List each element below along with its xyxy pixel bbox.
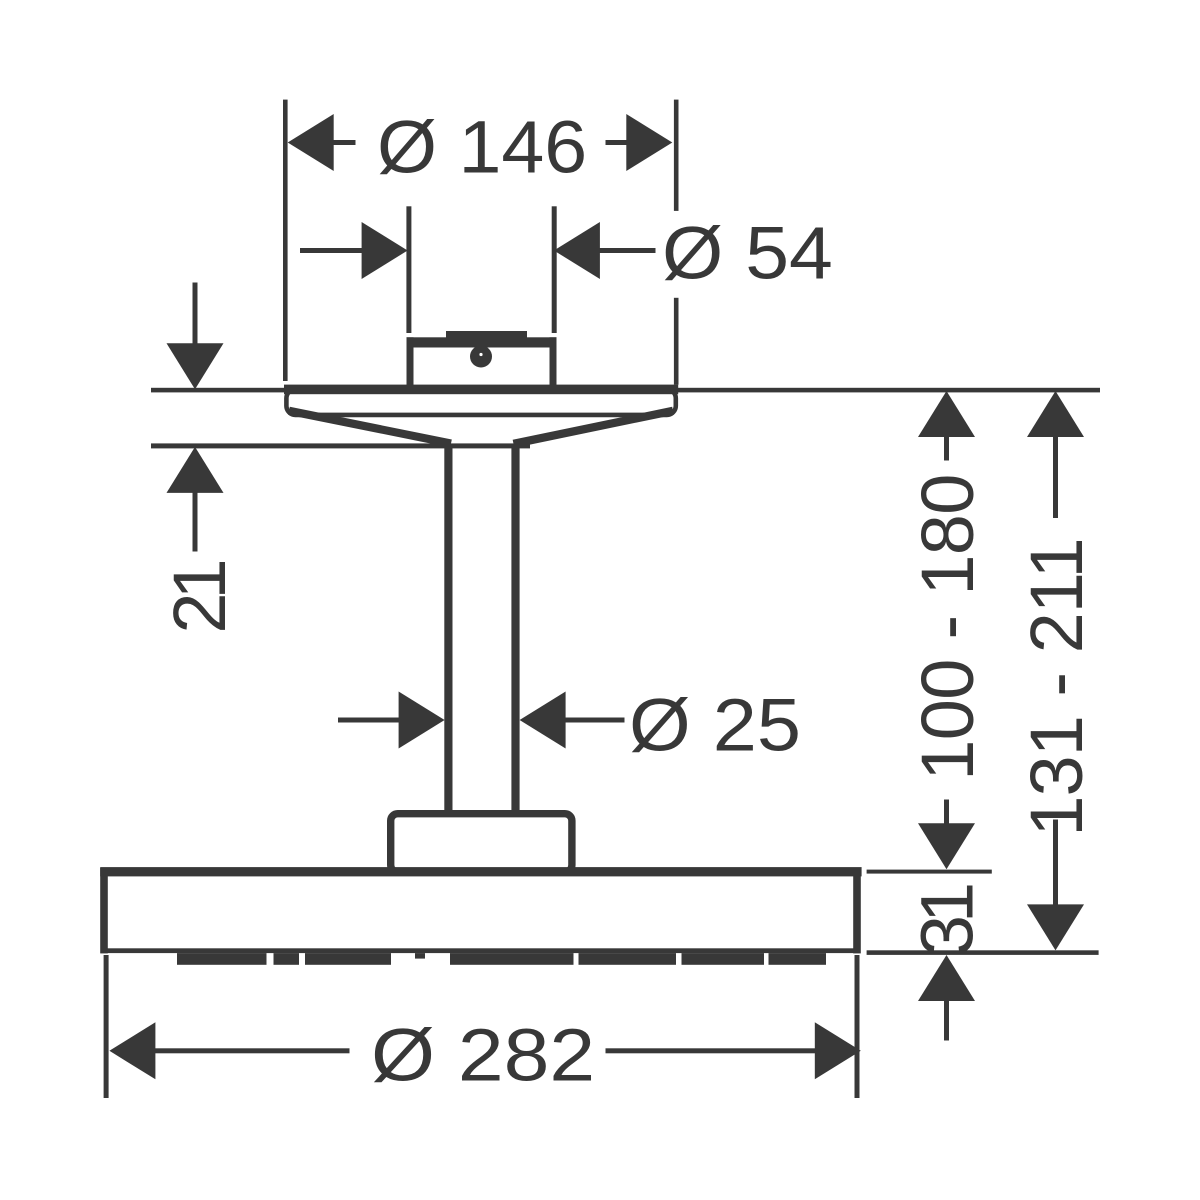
dimension 131-211 bottom down arrow [1027, 820, 1084, 951]
ceiling reference line right segment [675, 388, 1100, 393]
head bottom reference line right [867, 950, 1099, 955]
svg-text:131 - 211: 131 - 211 [1015, 538, 1098, 836]
cone right slant [514, 411, 674, 444]
dimension 21 lower line [193, 492, 198, 552]
dimension 21 upper line [193, 283, 198, 345]
dimension dia54 right arrow [554, 222, 656, 279]
dimension 21 down arrow [167, 343, 224, 389]
svg-text:100 - 180: 100 - 180 [906, 474, 989, 780]
shower head right edge [853, 868, 861, 953]
svg-text:Ø 146: Ø 146 [377, 107, 587, 189]
flange collar [391, 814, 572, 872]
svg-text:Ø 25: Ø 25 [629, 685, 801, 767]
cone left slant [289, 411, 451, 444]
svg-text:31: 31 [906, 885, 989, 956]
dimension dia282 right arrow [606, 1022, 861, 1079]
dimension dia25 left arrow [338, 692, 445, 749]
dimension 131-211 top up arrow [1027, 391, 1084, 518]
escutcheon plate body [286, 389, 675, 415]
extension line dia146 left [283, 100, 288, 381]
dimension 31 bottom up arrow [918, 955, 975, 1041]
extension line dia282 right [855, 955, 860, 1098]
svg-text:Ø 282: Ø 282 [371, 1013, 595, 1096]
pipe right edge [511, 445, 519, 813]
dimension dia54 left arrow [300, 222, 408, 279]
spray face band segments [177, 953, 826, 965]
extension line dia146 right upper [674, 100, 679, 211]
shower head left edge [100, 868, 108, 953]
extension line dia54 right [552, 206, 557, 333]
extension line dia146 right lower [674, 298, 679, 385]
dimension 100-180 top up arrow [918, 391, 975, 461]
shower head bottom edge [101, 948, 860, 953]
connector tab [446, 331, 527, 343]
dimension 100-180 bottom down arrow [918, 800, 975, 870]
head top reference line right [867, 870, 992, 874]
dimension 21 up arrow [167, 447, 224, 493]
dimension dia146 left arrow [288, 114, 356, 171]
shower head body [104, 872, 857, 952]
extension line dia54 left [406, 206, 411, 333]
escutcheon plate top bar [284, 385, 678, 395]
cone bottom / 21 reference line [151, 443, 530, 448]
dimension dia282 left arrow [109, 1022, 349, 1079]
shower head top bar [100, 867, 861, 876]
dimension dia25 right arrow [520, 692, 625, 749]
ceiling reference line left segment [151, 388, 287, 393]
extension line dia282 left [104, 955, 109, 1098]
svg-text:21: 21 [158, 562, 241, 634]
svg-text:Ø 54: Ø 54 [662, 213, 833, 295]
pipe left edge [444, 445, 452, 813]
screw [470, 346, 492, 368]
dimension dia146 right arrow [606, 114, 673, 171]
connector box C1 [410, 341, 553, 393]
